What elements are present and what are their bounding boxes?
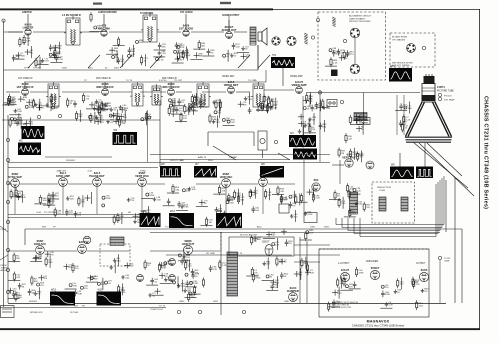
svg-text:TO CRT: TO CRT	[175, 160, 184, 162]
node	[58, 114, 61, 117]
tube V15	[138, 178, 147, 187]
waveform inset W16	[97, 289, 122, 306]
node: CRT pin	[438, 93, 441, 96]
waveform inset W3	[113, 129, 138, 145]
svg-text:47K: 47K	[221, 190, 225, 192]
svg-text:KEY: KEY	[42, 227, 47, 229]
svg-text:HOR OUT: HOR OUT	[182, 242, 195, 246]
svg-text:CHASSIS CT231 thru CT349 (10B: CHASSIS CT231 thru CT349 (10B Series)	[352, 323, 405, 327]
dashed box: 4.5MC trap	[100, 244, 130, 266]
wire (diagonal)	[278, 153, 290, 160]
svg-text:TUBE: TUBE	[444, 261, 450, 263]
IF transformer can T4	[46, 82, 61, 107]
wire: contrast loop right	[253, 132, 255, 146]
capacitor C90 (block)	[331, 70, 338, 77]
svg-text:10K: 10K	[38, 259, 42, 261]
net name labels along buses	[24, 67, 330, 308]
svg-text:5%: 5%	[30, 52, 33, 54]
svg-text:HOR AFC: HOR AFC	[34, 242, 46, 246]
svg-text:1M: 1M	[124, 110, 127, 112]
svg-text:2.2K: 2.2K	[185, 53, 190, 55]
svg-text:TO CRT: TO CRT	[229, 157, 238, 159]
wire: right vertical 2	[445, 180, 447, 232]
wire: antenna feed	[4, 31, 24, 33]
svg-text:33K: 33K	[16, 59, 20, 61]
svg-text:2.2K: 2.2K	[406, 120, 411, 122]
svg-text:10K: 10K	[114, 51, 118, 53]
IF transformer can T1 SOUND IF	[64, 16, 82, 45]
svg-text:47K: 47K	[191, 297, 195, 299]
waveform inset W10	[416, 167, 433, 179]
svg-text:DAMPER: DAMPER	[287, 289, 299, 293]
svg-text:47K: 47K	[16, 277, 20, 279]
svg-text:265V: 265V	[208, 160, 214, 162]
node: antenna terminal	[2, 19, 5, 22]
wire	[257, 45, 259, 70]
wire	[185, 14, 187, 28]
svg-text:470K: 470K	[21, 197, 27, 199]
wire: yoke lead horizontal	[360, 236, 436, 238]
svg-text:1M: 1M	[209, 222, 212, 224]
svg-text:47K: 47K	[226, 120, 230, 122]
component cluster: vif1	[2, 94, 54, 115]
svg-text:3.9K: 3.9K	[101, 110, 106, 112]
wire: drop to bus	[225, 187, 227, 214]
svg-text:470K: 470K	[203, 107, 209, 109]
svg-text:3.9K: 3.9K	[29, 107, 34, 109]
wire	[294, 261, 320, 263]
wire: yoke lead horizontal	[348, 230, 440, 232]
component cluster: vert out parts	[329, 183, 365, 218]
wire: contrast loop left	[207, 132, 209, 146]
wire: vertical	[303, 160, 305, 212]
transformer T3 AUDIO OUTPUT	[250, 27, 256, 45]
top border line (thin)	[273, 8, 480, 10]
wire: sync bus 2	[8, 217, 150, 219]
wire: vertical	[159, 100, 161, 167]
wire: vertical	[147, 110, 149, 162]
transformer T9 vert output	[350, 192, 358, 214]
svg-text:AGC: AGC	[88, 67, 93, 70]
component cluster: hosc parts	[144, 258, 205, 302]
component cluster: hafc parts	[8, 251, 131, 302]
wire: yoke lead drop	[341, 218, 343, 228]
tube V10	[345, 159, 353, 167]
wire: yoke lead vertical	[439, 180, 441, 231]
svg-text:2.2K: 2.2K	[161, 53, 166, 55]
wire: signal path row2	[30, 91, 48, 93]
wire: long bus	[8, 162, 330, 164]
svg-text:W12: W12	[141, 210, 147, 213]
svg-text:470K: 470K	[255, 278, 261, 280]
svg-text:1M: 1M	[115, 57, 118, 59]
wire	[294, 244, 330, 246]
svg-text:47K: 47K	[197, 100, 201, 102]
svg-text:5%: 5%	[337, 196, 340, 198]
svg-text:6AQ5: 6AQ5	[259, 173, 267, 177]
wire: signal path row2	[176, 91, 192, 93]
svg-text:33K: 33K	[16, 258, 20, 260]
node: left edge terminal	[6, 138, 9, 141]
component cluster: hv parts	[246, 257, 311, 291]
component cluster: vif2	[67, 93, 126, 115]
wire: yoke lead drop	[335, 218, 337, 225]
wire: yoke lead drop	[359, 218, 361, 237]
svg-text:470K: 470K	[266, 107, 272, 109]
tube V2	[101, 30, 107, 36]
svg-text:33K: 33K	[309, 98, 313, 100]
svg-text:21ZP4: 21ZP4	[437, 85, 445, 89]
tube V9	[296, 87, 303, 94]
svg-text:SYNC AMP: SYNC AMP	[56, 174, 70, 178]
wire: sync row path	[68, 183, 92, 185]
svg-text:47K: 47K	[181, 47, 185, 49]
wire: bottom bus 2	[0, 307, 166, 309]
svg-text:10K: 10K	[70, 199, 74, 201]
waveform inset W13	[169, 210, 194, 228]
svg-text:5%: 5%	[403, 107, 406, 109]
svg-text:5%: 5%	[292, 205, 295, 207]
wire	[354, 38, 356, 64]
tube socket socket X2	[350, 64, 360, 74]
svg-text:LATE PRODUCTION: LATE PRODUCTION	[332, 306, 351, 309]
wire: scope tap	[282, 68, 284, 86]
wire (diagonal lead-in)	[0, 226, 8, 232]
wire	[103, 14, 105, 28]
CRT picture tube 21ZP4	[405, 74, 452, 142]
wire: yoke lead vertical	[443, 176, 445, 225]
svg-text:W15: W15	[51, 289, 57, 292]
wire: drop to bus	[14, 187, 16, 214]
svg-text:117V AC: 117V AC	[70, 311, 79, 314]
svg-text:33K: 33K	[199, 56, 203, 58]
svg-text:5%: 5%	[289, 243, 292, 245]
svg-text:33K: 33K	[107, 105, 111, 107]
svg-text:AGC: AGC	[184, 226, 189, 229]
wire	[257, 45, 259, 70]
node	[343, 39, 346, 42]
waveform inset TP1	[271, 54, 295, 68]
svg-text:KEY: KEY	[71, 160, 76, 162]
node: CRT pin	[438, 97, 441, 100]
node: left edge terminal	[6, 220, 9, 223]
wire: video bus	[160, 159, 290, 161]
svg-text:1M: 1M	[148, 117, 151, 119]
wire: drop to bus	[262, 187, 264, 214]
svg-text:2ND VIDEO IF: 2ND VIDEO IF	[96, 78, 112, 80]
svg-text:10K: 10K	[99, 102, 103, 104]
wire	[24, 82, 26, 87]
wire: signal path row2	[202, 91, 226, 93]
wire: left vertical bus	[3, 21, 5, 307]
node: left edge terminal	[6, 181, 9, 184]
wire: sync bus	[8, 214, 152, 216]
svg-text:3.9K: 3.9K	[308, 101, 313, 103]
component cluster: defl parts	[176, 185, 313, 227]
svg-text:470K: 470K	[193, 283, 199, 285]
component cluster: row1 mid	[106, 37, 166, 67]
svg-text:10K: 10K	[81, 202, 85, 204]
svg-text:TO CRT: TO CRT	[174, 80, 183, 82]
wire: vertical	[339, 160, 341, 184]
component cluster: vdet	[238, 93, 276, 114]
wire (diagonal)	[213, 146, 236, 160]
wire: signal path row1	[191, 31, 224, 33]
waveform inset W2	[18, 140, 41, 156]
svg-text:470K: 470K	[118, 122, 124, 124]
wire: sync row path	[8, 183, 12, 185]
svg-text:ION TRAP: ION TRAP	[444, 98, 455, 101]
svg-text:SYNC SEP: SYNC SEP	[8, 175, 22, 179]
coil L5 filter choke	[304, 33, 307, 44]
wire: CRT ground	[424, 143, 426, 176]
wire: sync row path	[102, 183, 137, 185]
svg-text:5%: 5%	[37, 294, 40, 296]
waveform inset W14	[216, 210, 242, 228]
component cluster: sync parts	[10, 188, 153, 225]
svg-text:2.2K: 2.2K	[315, 198, 320, 200]
svg-text:1M: 1M	[283, 200, 286, 202]
wire: bus	[150, 232, 440, 234]
svg-text:KEY: KEY	[74, 305, 79, 307]
wire: yoke lead drop	[353, 218, 355, 234]
svg-text:47K: 47K	[254, 193, 258, 195]
svg-text:5%: 5%	[121, 290, 124, 292]
tube V7	[168, 89, 175, 96]
svg-text:6AS5: 6AS5	[421, 268, 428, 272]
wire: yoke lead vertical	[435, 184, 437, 237]
node: left edge terminal	[6, 290, 9, 293]
svg-text:3.9K: 3.9K	[48, 262, 53, 264]
wire: sync row path	[196, 183, 221, 185]
wire: brightness drop	[363, 93, 365, 119]
wire: bottom row path	[45, 250, 77, 252]
svg-text:5%: 5%	[424, 291, 427, 293]
svg-text:265V: 265V	[32, 301, 38, 303]
tube V12	[11, 179, 20, 188]
IF transformer can T2 DISCRIM	[141, 13, 159, 42]
tube V21	[183, 245, 192, 254]
wire	[220, 250, 222, 252]
svg-text:LIMITER: LIMITER	[22, 11, 32, 14]
component cluster: row1 top small	[89, 12, 101, 31]
svg-text:TO T4: TO T4	[159, 305, 166, 307]
node	[37, 115, 40, 118]
svg-text:AUTOMATIC SPOT SHUT-W: AUTOMATIC SPOT SHUT-W	[332, 301, 358, 304]
component cluster: vif3	[168, 93, 220, 117]
wire: right vertical	[454, 178, 456, 303]
box: audio output sub-circuit	[319, 249, 429, 317]
svg-text:2.2K: 2.2K	[16, 295, 21, 297]
wire: drop to bus	[141, 187, 143, 214]
node	[88, 115, 91, 118]
wire	[27, 14, 29, 27]
tube V15b	[83, 236, 91, 244]
svg-text:OF CHASSIS: OF CHASSIS	[392, 38, 406, 41]
node: to pix tube	[438, 256, 441, 259]
svg-text:TO CRT: TO CRT	[33, 68, 42, 70]
svg-text:3.9K: 3.9K	[73, 285, 78, 287]
wire: drop to V4	[228, 14, 230, 31]
node: left edge terminal	[6, 158, 9, 161]
svg-text:VIDEO AMP: VIDEO AMP	[292, 83, 307, 87]
svg-text:W14: W14	[217, 210, 223, 213]
svg-text:2.2K: 2.2K	[159, 59, 164, 61]
svg-text:47K: 47K	[243, 105, 247, 107]
component cluster: crt parts	[395, 102, 409, 133]
wire: yoke lead vertical	[441, 178, 443, 228]
wire: sync row path	[20, 183, 58, 185]
tube V18	[312, 183, 320, 191]
svg-text:3.9K: 3.9K	[162, 268, 167, 270]
transformer T8 VERT OUT	[354, 113, 367, 121]
IF transformer can T5	[130, 82, 145, 106]
contrast control R40	[258, 131, 267, 158]
component cluster: row1 left	[12, 34, 63, 69]
node: left edge terminal	[6, 268, 9, 271]
svg-text:YOKE: YOKE	[379, 190, 386, 192]
component cluster: agc right	[298, 113, 325, 137]
svg-text:1M: 1M	[171, 111, 174, 113]
wire: bottom row path	[193, 250, 220, 252]
svg-text:1M: 1M	[299, 274, 302, 276]
wire: signal path row2	[6, 91, 20, 93]
svg-text:33K: 33K	[360, 155, 364, 157]
svg-text:5%: 5%	[230, 199, 233, 201]
wire: signal path row1	[109, 31, 143, 33]
vertical integrator Z2	[304, 213, 317, 223]
svg-text:INTERLOCK: INTERLOCK	[30, 312, 43, 314]
svg-text:TO T4: TO T4	[236, 253, 243, 255]
wire: signal path row1	[33, 31, 66, 33]
wire: box top (dashed)	[319, 248, 429, 250]
svg-text:TO T4: TO T4	[200, 157, 207, 159]
svg-text:33K: 33K	[101, 284, 105, 286]
IF transformer can T7	[251, 82, 266, 107]
svg-text:33K: 33K	[344, 58, 348, 60]
svg-text:TO CRT: TO CRT	[101, 301, 110, 303]
component cluster: row1 out	[223, 43, 250, 62]
svg-text:33K: 33K	[94, 278, 98, 280]
wire: yoke lead horizontal	[354, 233, 438, 235]
wire: signal path row1	[157, 31, 181, 33]
svg-text:W16: W16	[98, 289, 104, 292]
wire (diagonal lead-in)	[0, 255, 8, 260]
svg-text:10K: 10K	[358, 204, 362, 206]
wire: yoke lead horizontal	[336, 224, 444, 226]
speaker SP1	[258, 28, 267, 45]
wire: signal path row1	[234, 31, 247, 33]
svg-text:GND: GND	[210, 253, 215, 255]
svg-text:VIDEO DET: VIDEO DET	[224, 83, 239, 87]
box: HV cage	[229, 237, 294, 256]
svg-text:2.2K: 2.2K	[181, 286, 186, 288]
component cluster: hout parts	[159, 249, 221, 295]
svg-text:YOKE PLUG: YOKE PLUG	[150, 309, 163, 311]
wire: signal path row1	[80, 31, 99, 33]
svg-text:470K: 470K	[69, 267, 75, 269]
svg-text:10K: 10K	[309, 233, 313, 235]
wire: video to CRT grid	[306, 92, 420, 94]
svg-text:2.2K: 2.2K	[121, 292, 126, 294]
component cluster: vamp	[303, 92, 329, 111]
tube socket socket X3	[407, 44, 416, 53]
svg-text:VIDEO AMP: VIDEO AMP	[290, 75, 303, 78]
svg-text:TP1: TP1	[272, 54, 277, 57]
svg-text:DEFLECTION: DEFLECTION	[377, 187, 391, 189]
wire: vertical to audio box	[299, 237, 301, 303]
tube V17	[259, 178, 268, 187]
svg-text:1ST AUDIO: 1ST AUDIO	[180, 11, 193, 14]
wire	[439, 260, 441, 303]
svg-text:VERT OSC: VERT OSC	[135, 174, 149, 178]
svg-text:3.9K: 3.9K	[17, 111, 22, 113]
tube V26	[419, 272, 428, 281]
svg-text:IN LATE RUNS: IN LATE RUNS	[392, 36, 407, 39]
svg-text:HV: HV	[29, 301, 33, 303]
wire: sync row path	[231, 183, 258, 185]
wire	[332, 164, 344, 166]
waveform inset W9	[390, 164, 414, 180]
svg-text:3.9K: 3.9K	[78, 293, 83, 295]
svg-text:3.9K: 3.9K	[26, 40, 31, 42]
svg-text:3.9K: 3.9K	[184, 207, 189, 209]
svg-text:TO CRT: TO CRT	[165, 227, 174, 229]
wire: signal path row2	[236, 91, 250, 93]
node	[318, 91, 321, 94]
svg-text:3.9K: 3.9K	[350, 189, 355, 191]
waveform inset W11	[389, 65, 412, 82]
svg-text:10K: 10K	[255, 210, 259, 212]
component cluster: box1 parts	[325, 49, 350, 67]
svg-text:W11: W11	[390, 65, 395, 68]
switch S1 (diagonal contacts)	[28, 55, 270, 68]
wire	[24, 229, 26, 245]
wire: bottom row path	[8, 250, 35, 252]
node	[116, 116, 119, 119]
svg-text:1ST VIDEO IF: 1ST VIDEO IF	[18, 78, 33, 80]
svg-text:47K: 47K	[195, 272, 199, 274]
svg-text:+140: +140	[56, 171, 62, 173]
svg-text:HV: HV	[128, 212, 132, 214]
waveform inset W7	[194, 163, 217, 178]
tube V14	[93, 178, 102, 187]
tube V13	[59, 178, 68, 187]
tube V19	[36, 246, 45, 255]
wire: contrast loop top	[208, 131, 254, 133]
svg-text:33K: 33K	[22, 42, 26, 44]
svg-text:5%: 5%	[210, 52, 213, 54]
wire	[228, 20, 230, 30]
svg-text:135V: 135V	[310, 227, 316, 229]
svg-text:AGC: AGC	[257, 226, 262, 229]
transformer L30 yoke vert	[379, 197, 386, 211]
waveform inset W6	[160, 163, 181, 178]
node	[242, 310, 245, 313]
dashed box: heater circuit note	[390, 33, 435, 67]
svg-text:1B3GT: 1B3GT	[262, 241, 270, 244]
wire: drop to bus	[96, 187, 98, 214]
waveform inset W15	[50, 289, 75, 306]
wire	[294, 254, 340, 256]
svg-text:2.2K: 2.2K	[237, 195, 242, 197]
tube V21b	[169, 259, 176, 266]
node	[340, 100, 343, 103]
wire: sync row path	[147, 183, 165, 185]
tube V21c	[169, 275, 176, 282]
transformer L31 yoke horiz	[401, 197, 408, 211]
transformer T10 flyback	[227, 252, 238, 296]
